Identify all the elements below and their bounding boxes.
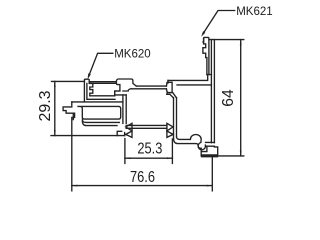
- MK621 main wall: [211, 40, 214, 143]
- MK620 box hollow: [78, 106, 121, 119]
- MK620 tooth 1 (left serrated glazing tooth): [84, 79, 114, 96]
- 25.3 dimension line: [125, 157, 172, 159]
- 29.3 dimension line: [54, 81, 56, 135]
- shelf left wedge lower: [126, 131, 132, 137]
- arrowhead 64 top: [240, 40, 242, 46]
- 25.3 extension lines: [125, 139, 172, 164]
- svg-text:MK620: MK620: [114, 49, 150, 61]
- MK621 screw port circle: [198, 143, 205, 150]
- MK620 bottom lip line (with 29.3 extension): [51, 135, 125, 137]
- MK620 tooth 2 (T-head): [115, 79, 137, 96]
- arrowhead leader MK621: [201, 31, 205, 37]
- MK620 arm bottom line: [131, 88, 166, 90]
- MK621 groove inner wall: [207, 40, 212, 75]
- MK620 leader line: [89, 53, 113, 76]
- 64 dimension line: [240, 40, 242, 156]
- MK620 right wall inner: [122, 95, 124, 124]
- MK620 left wall outer: [83, 81, 85, 102]
- svg-text:29.3: 29.3: [37, 91, 54, 122]
- arrowhead 64 bottom: [240, 150, 242, 156]
- MK621 floor inner with bump: [177, 135, 202, 143]
- MK621 left tooth column: [203, 38, 207, 74]
- MK620 left step and notch: [63, 102, 75, 136]
- glazing bar between teeth: [89, 82, 116, 84]
- tooth 2 foot: [115, 91, 127, 95]
- diagonals from clip into left wall: [170, 92, 177, 98]
- arrowhead 25.3 left: [125, 157, 131, 159]
- MK621 leader line: [203, 11, 235, 34]
- arrowhead 29.3 bottom: [54, 130, 56, 136]
- MK620 arm end wedge clip: [166, 82, 172, 92]
- MK621 left wall: [174, 98, 177, 139]
- svg-text:64: 64: [220, 89, 237, 107]
- MK621 foot inner step: [201, 147, 207, 152]
- MK620 top line with left extension: [52, 80, 85, 82]
- svg-text:25.3: 25.3: [137, 141, 162, 158]
- MK621 clip lip at lid end: [167, 80, 168, 83]
- MK620 box lid line: [72, 101, 123, 103]
- MK620 box bottom wall: [82, 119, 119, 122]
- svg-text:76.6: 76.6: [130, 169, 155, 186]
- 76.6 dimension line: [72, 185, 213, 187]
- svg-text:MK621: MK621: [236, 6, 272, 18]
- middle shelf between profiles: [126, 125, 167, 128]
- MK620 bottom-right foot step: [117, 131, 124, 135]
- arrowhead 76.6 left: [72, 185, 78, 187]
- arrowhead 76.6 right: [207, 185, 213, 187]
- shelf right wedge upper: [167, 123, 173, 131]
- MK620 left wall inner + inner shelf: [87, 83, 115, 99]
- MK621 wall slot: [206, 142, 215, 146]
- MK621 clip tooth below wedge: [167, 92, 170, 94]
- shelf right wedge lower: [167, 131, 173, 137]
- MK620 right wall outer: [125, 95, 127, 124]
- arrowhead 29.3 top: [54, 81, 56, 87]
- MK621 lid outer: [168, 75, 208, 81]
- MK621 lid inner ceiling: [177, 84, 211, 86]
- tooth 2 hook underside into neck: [123, 89, 131, 91]
- MK621 foot: [201, 147, 218, 157]
- MK621 floor outer: [174, 138, 202, 148]
- arrowhead leader MK620: [88, 73, 91, 79]
- MK621 top bump and top edge with 64 extension: [204, 37, 244, 42]
- arrowhead 25.3 right: [167, 157, 173, 159]
- MK620 arm top line: [136, 85, 166, 87]
- shelf left wedge upper: [126, 123, 132, 131]
- 64 bottom extension line: [201, 155, 244, 157]
- 76.6 extension lines: [72, 136, 213, 191]
